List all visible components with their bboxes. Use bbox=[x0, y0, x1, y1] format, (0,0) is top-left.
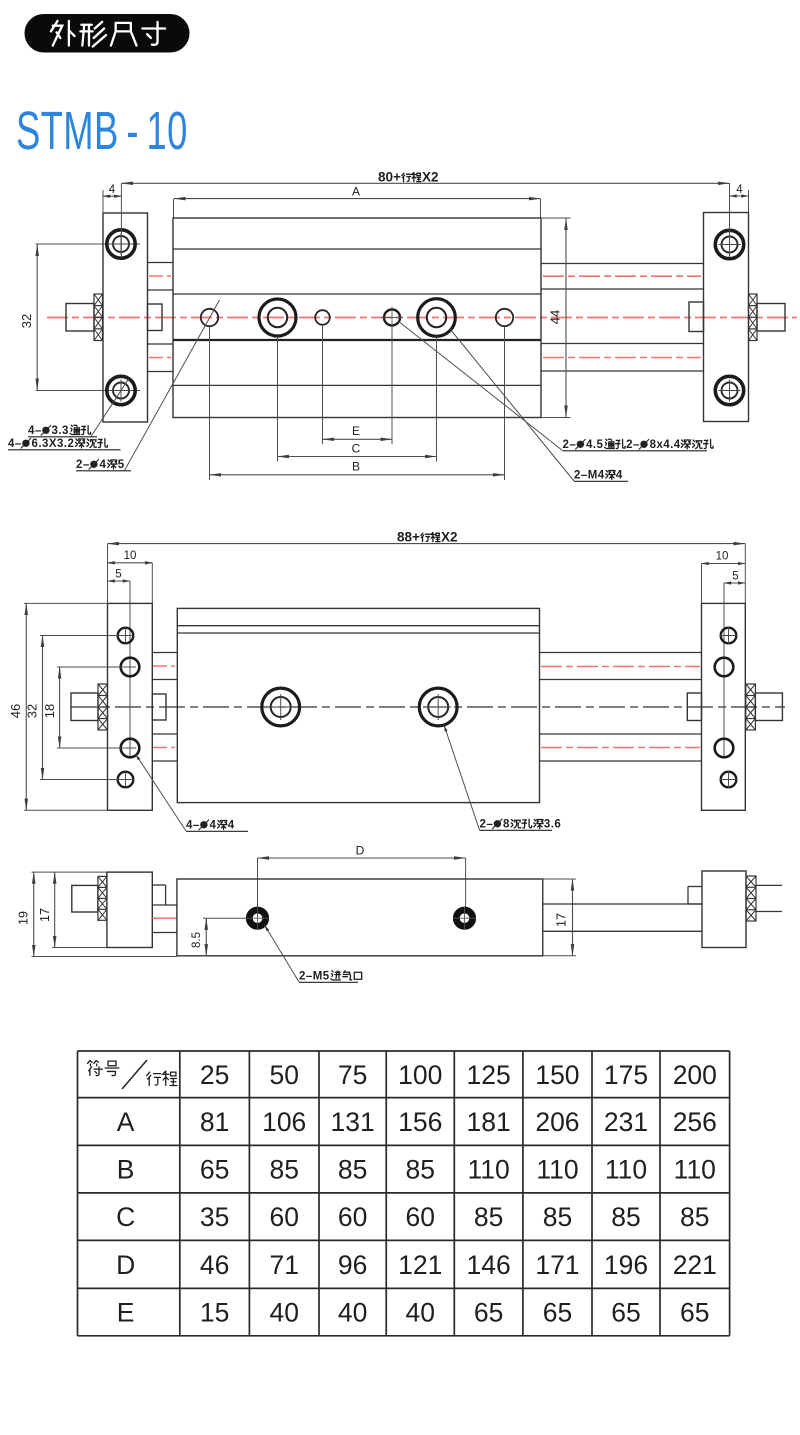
right nut v2 bbox=[746, 684, 756, 730]
table header cell bbox=[88, 1061, 103, 1076]
svg-text:8.5: 8.5 bbox=[191, 932, 203, 948]
right shaft bbox=[757, 304, 785, 332]
right plate v2 bbox=[702, 603, 746, 810]
right rod stub v2 bbox=[687, 693, 701, 721]
svg-text:65: 65 bbox=[611, 1298, 640, 1328]
right plate bolt top bbox=[715, 230, 743, 258]
right nut v3 bbox=[746, 876, 756, 921]
table grid bbox=[78, 1050, 730, 1052]
svg-text:4: 4 bbox=[616, 470, 623, 482]
svg-text:44: 44 bbox=[548, 310, 563, 324]
extension lines view3 bbox=[32, 871, 153, 873]
leader M5 label bbox=[265, 925, 300, 982]
body circle 2 v2 bbox=[419, 688, 457, 726]
right end plate bbox=[704, 213, 749, 422]
left tongue top bbox=[148, 262, 174, 264]
left rod stub bbox=[148, 304, 163, 331]
svg-text:4–: 4– bbox=[8, 438, 22, 450]
dim 10 right bbox=[702, 563, 746, 565]
svg-text:4: 4 bbox=[100, 459, 107, 471]
right rod stub bbox=[689, 302, 704, 332]
hole circle 4 bbox=[384, 310, 400, 326]
svg-text:2–M5: 2–M5 bbox=[299, 971, 330, 983]
svg-text:81: 81 bbox=[200, 1107, 229, 1137]
svg-text:E: E bbox=[117, 1298, 135, 1328]
svg-text:10: 10 bbox=[716, 551, 729, 563]
extension lines left dims bbox=[24, 602, 108, 604]
center line (red dash-dot) bbox=[47, 317, 797, 319]
svg-text:106: 106 bbox=[262, 1107, 306, 1137]
title badge 外形尺寸 bbox=[25, 15, 189, 53]
svg-text:2–: 2– bbox=[563, 439, 577, 451]
body line 4 bbox=[173, 384, 541, 386]
svg-text:5: 5 bbox=[118, 459, 125, 471]
left lock nut (crosshatch) bbox=[94, 294, 103, 341]
svg-text:121: 121 bbox=[398, 1250, 442, 1280]
svg-text:85: 85 bbox=[611, 1202, 640, 1232]
svg-text:4: 4 bbox=[210, 820, 217, 832]
svg-text:85: 85 bbox=[406, 1155, 435, 1185]
right plate bolt bottom bbox=[715, 376, 743, 404]
svg-text:80+: 80+ bbox=[378, 170, 401, 185]
svg-text:71: 71 bbox=[269, 1250, 298, 1280]
svg-text:85: 85 bbox=[474, 1202, 503, 1232]
dim 44 bbox=[541, 217, 571, 219]
right lock nut (crosshatch) bbox=[749, 294, 758, 341]
svg-text:40: 40 bbox=[338, 1298, 367, 1328]
dim 5 right bbox=[724, 582, 745, 584]
svg-text:2–: 2– bbox=[626, 439, 640, 451]
right bracket v3 bbox=[702, 871, 746, 948]
air port 1 bbox=[249, 910, 265, 926]
svg-text:125: 125 bbox=[466, 1060, 510, 1090]
dim E bbox=[323, 438, 393, 440]
svg-text:5: 5 bbox=[115, 568, 121, 580]
dim 32 left bbox=[36, 245, 38, 391]
dim 10 left bbox=[108, 562, 153, 564]
left shaft v3 bbox=[72, 885, 98, 912]
svg-text:60: 60 bbox=[406, 1202, 435, 1232]
left bracket v3 bbox=[107, 872, 152, 947]
svg-text:88+: 88+ bbox=[397, 530, 420, 545]
svg-text:D: D bbox=[116, 1250, 135, 1280]
dim 4 top-left bbox=[103, 195, 121, 197]
body v3 bbox=[177, 879, 543, 956]
svg-text:46: 46 bbox=[8, 704, 23, 718]
svg-text:131: 131 bbox=[331, 1107, 375, 1137]
svg-text:46: 46 bbox=[200, 1250, 229, 1280]
svg-text:85: 85 bbox=[269, 1155, 298, 1185]
svg-text:C: C bbox=[352, 441, 361, 455]
svg-text:175: 175 bbox=[604, 1060, 648, 1090]
svg-text:B: B bbox=[117, 1155, 135, 1185]
dim A bbox=[174, 198, 541, 200]
svg-text:18: 18 bbox=[42, 704, 57, 718]
svg-text:17: 17 bbox=[38, 908, 52, 922]
svg-text:25: 25 bbox=[200, 1060, 229, 1090]
svg-text:4: 4 bbox=[109, 184, 116, 196]
svg-text:50: 50 bbox=[269, 1060, 298, 1090]
svg-text:65: 65 bbox=[543, 1298, 572, 1328]
svg-text:85: 85 bbox=[680, 1202, 709, 1232]
right rails v2 bbox=[540, 652, 702, 654]
svg-text:256: 256 bbox=[673, 1107, 717, 1137]
dim D bbox=[258, 857, 466, 859]
body line 2 bbox=[173, 293, 541, 295]
svg-text:A: A bbox=[117, 1107, 135, 1137]
svg-text:221: 221 bbox=[673, 1250, 717, 1280]
svg-text:X2: X2 bbox=[422, 170, 439, 185]
center line (black dash-dot) bbox=[71, 706, 785, 708]
left tongue bottom bbox=[148, 343, 174, 345]
body circle 1 v2 bbox=[262, 688, 300, 726]
bracket notch bbox=[688, 886, 702, 888]
svg-text:4: 4 bbox=[228, 820, 235, 832]
svg-text:E: E bbox=[352, 424, 360, 438]
leader 2-D8 label bbox=[444, 725, 480, 830]
svg-text:146: 146 bbox=[466, 1250, 510, 1280]
svg-text:181: 181 bbox=[466, 1107, 510, 1137]
leader: dowel hole label bbox=[125, 300, 220, 471]
svg-text:65: 65 bbox=[200, 1155, 229, 1185]
left plate view2 bbox=[108, 603, 153, 810]
dim 17 right bbox=[543, 878, 576, 880]
svg-text:4.5: 4.5 bbox=[586, 439, 603, 451]
svg-text:2–M4: 2–M4 bbox=[574, 470, 605, 482]
svg-text:85: 85 bbox=[338, 1155, 367, 1185]
svg-text:8x4.4: 8x4.4 bbox=[650, 439, 681, 451]
plate holes right bbox=[721, 628, 737, 644]
left shaft v2 bbox=[71, 693, 98, 721]
left shaft bbox=[66, 304, 94, 332]
hole circle 2 (counterbore) bbox=[259, 299, 296, 336]
extension lines to E/C/B dims bbox=[209, 327, 211, 481]
right shaft v2 bbox=[755, 693, 782, 721]
left nut v2 bbox=[98, 684, 108, 730]
svg-text:A: A bbox=[352, 185, 360, 199]
dim 80+stroke x2 bbox=[121, 182, 729, 184]
svg-text:110: 110 bbox=[467, 1155, 509, 1185]
svg-text:65: 65 bbox=[474, 1298, 503, 1328]
svg-text:206: 206 bbox=[535, 1107, 579, 1137]
svg-text:100: 100 bbox=[398, 1060, 442, 1090]
svg-text:19: 19 bbox=[17, 911, 31, 925]
svg-text:35: 35 bbox=[200, 1202, 229, 1232]
leader: counterbore label right bbox=[398, 321, 563, 451]
dim 32 v2 bbox=[42, 636, 44, 780]
svg-text:X2: X2 bbox=[441, 530, 458, 545]
dim 4 top-right bbox=[730, 195, 749, 197]
svg-text:110: 110 bbox=[674, 1155, 716, 1185]
svg-text:3.6: 3.6 bbox=[544, 819, 561, 831]
svg-text:STMB - 10: STMB - 10 bbox=[16, 101, 188, 161]
svg-text:60: 60 bbox=[269, 1202, 298, 1232]
dim 8.5 bbox=[205, 918, 207, 956]
svg-text:110: 110 bbox=[605, 1155, 647, 1185]
svg-text:40: 40 bbox=[406, 1298, 435, 1328]
body line 1 bbox=[173, 248, 541, 250]
hole circle 1 bbox=[201, 309, 218, 326]
right rails bottom bbox=[541, 343, 704, 345]
main body bbox=[173, 218, 541, 418]
dim 17 left bbox=[54, 872, 56, 947]
dim 18 bbox=[59, 667, 61, 748]
svg-text:5: 5 bbox=[732, 570, 738, 582]
hole circle 5 (counterbore) bbox=[418, 299, 456, 337]
svg-text:3.3: 3.3 bbox=[52, 425, 69, 437]
svg-text:40: 40 bbox=[269, 1298, 298, 1328]
dim C bbox=[278, 456, 437, 458]
dim 46 bbox=[25, 603, 27, 810]
svg-text:75: 75 bbox=[338, 1060, 367, 1090]
svg-text:8: 8 bbox=[503, 819, 510, 831]
svg-text:32: 32 bbox=[19, 314, 34, 328]
svg-text:4–: 4– bbox=[28, 425, 42, 437]
right rails top bbox=[541, 263, 704, 265]
svg-text:85: 85 bbox=[543, 1202, 572, 1232]
svg-text:2–: 2– bbox=[76, 459, 90, 471]
plate holes left bbox=[118, 628, 134, 644]
dim B bbox=[210, 474, 505, 476]
svg-text:65: 65 bbox=[680, 1298, 709, 1328]
hole circle 6 bbox=[496, 309, 513, 326]
svg-text:6.3X3.2: 6.3X3.2 bbox=[32, 438, 75, 450]
svg-text:4–: 4– bbox=[186, 820, 200, 832]
hole circle 3 bbox=[315, 310, 330, 325]
svg-text:156: 156 bbox=[398, 1107, 442, 1137]
air port 2 bbox=[456, 910, 472, 926]
svg-text:110: 110 bbox=[536, 1155, 578, 1185]
svg-text:171: 171 bbox=[535, 1250, 579, 1280]
left plate bolt bottom bbox=[107, 376, 135, 404]
right rod stub v3 bbox=[756, 884, 782, 886]
dim 5 left bbox=[108, 580, 131, 582]
left end plate bbox=[103, 213, 148, 422]
svg-text:C: C bbox=[116, 1202, 135, 1232]
svg-text:4: 4 bbox=[736, 184, 743, 196]
left rod stub v2 bbox=[152, 694, 166, 720]
body line 3 (table edge) bbox=[173, 339, 541, 341]
svg-text:60: 60 bbox=[338, 1202, 367, 1232]
svg-text:32: 32 bbox=[25, 704, 40, 718]
piston rod v3 bbox=[543, 903, 702, 905]
svg-text:B: B bbox=[352, 460, 360, 474]
dim 88+stroke x2 bbox=[108, 543, 746, 545]
leader: bolt holes label bbox=[91, 379, 129, 437]
svg-text:231: 231 bbox=[604, 1107, 648, 1137]
svg-text:10: 10 bbox=[124, 550, 137, 562]
svg-text:15: 15 bbox=[200, 1298, 229, 1328]
left nut v3 bbox=[98, 876, 107, 920]
svg-text:96: 96 bbox=[338, 1250, 367, 1280]
left plate bolt top bbox=[107, 230, 135, 258]
tongue v3 bbox=[152, 884, 165, 886]
svg-text:2–: 2– bbox=[480, 819, 494, 831]
svg-text:D: D bbox=[356, 844, 365, 858]
svg-text:150: 150 bbox=[535, 1060, 579, 1090]
leader: M4 label bbox=[450, 329, 574, 481]
left tongue rails v2 bbox=[152, 652, 177, 654]
dim 19 bbox=[33, 872, 35, 956]
svg-text:200: 200 bbox=[673, 1060, 717, 1090]
svg-text:17: 17 bbox=[555, 913, 569, 927]
svg-text:196: 196 bbox=[604, 1250, 648, 1280]
main body v2 bbox=[177, 608, 539, 802]
leader 4-D4 label bbox=[136, 754, 187, 831]
